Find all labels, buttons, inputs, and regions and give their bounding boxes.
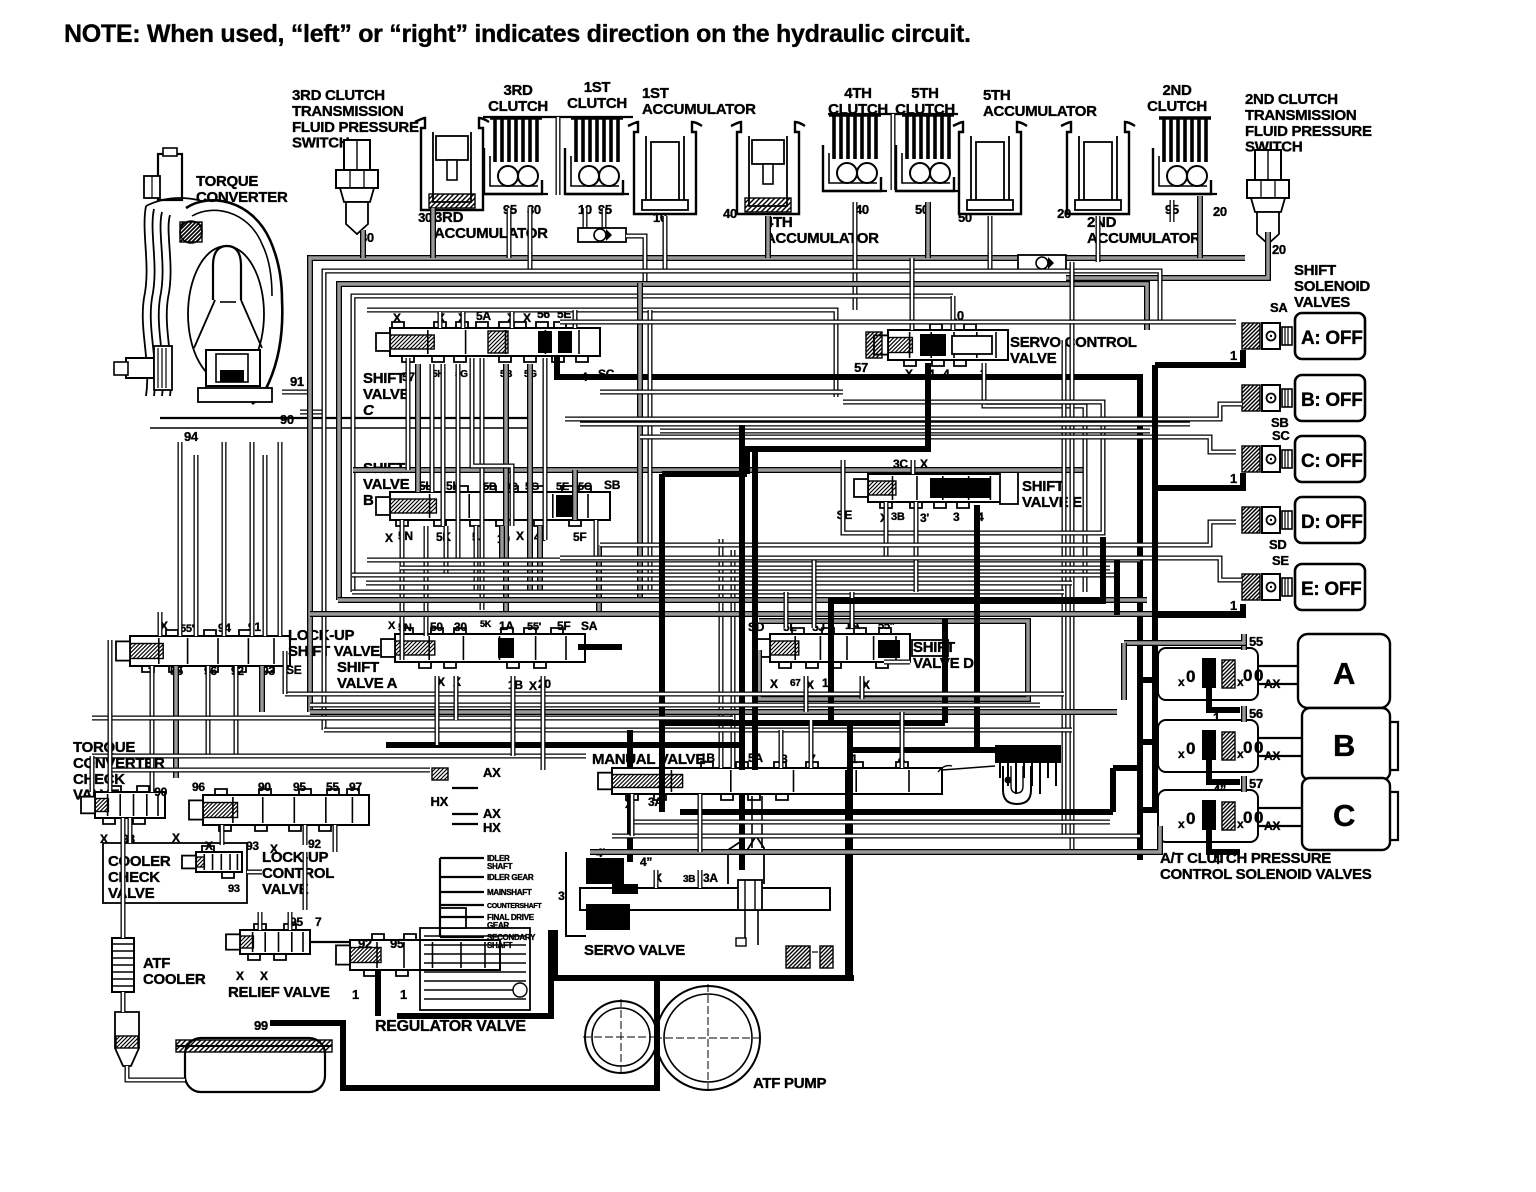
svg-text:55': 55': [527, 621, 542, 633]
manual valve bottom ports: [625, 795, 663, 811]
svg-text:90: 90: [280, 412, 294, 427]
svg-text:5E: 5E: [556, 481, 569, 493]
svg-text:A: A: [1333, 656, 1355, 691]
label 20 2nd acc: [1057, 206, 1071, 221]
label 1 solC: [1230, 471, 1237, 486]
label 99: [254, 1018, 268, 1033]
wire thick regulator: [397, 930, 551, 1016]
svg-text:SERVO VALVE: SERVO VALVE: [584, 942, 685, 959]
solenoid A off box: [1295, 313, 1365, 359]
label 2nd clutch: [1147, 82, 1207, 115]
label shift valve A: [337, 659, 398, 692]
svg-text:X: X: [385, 531, 393, 545]
wire valveB drops: [402, 470, 596, 660]
wire valveA bottom drops: [437, 676, 543, 770]
wire relief feeds: [260, 852, 350, 942]
svg-text:3A: 3A: [703, 871, 718, 885]
cooler check valve label: [108, 853, 171, 902]
wire mid h2b: [352, 583, 1072, 592]
wire valveC box: [353, 310, 1085, 470]
2nd accumulator: [1061, 122, 1135, 214]
svg-text:0: 0: [1186, 809, 1195, 828]
svg-text:SE: SE: [286, 663, 302, 677]
wire thick v 662: [662, 474, 747, 812]
valveD top ports: [748, 618, 895, 634]
svg-text:20: 20: [1213, 204, 1227, 219]
wire mid h4: [324, 728, 1072, 733]
svg-text:57: 57: [1249, 776, 1263, 791]
wire sol D line: [600, 522, 1236, 545]
svg-text:4”: 4”: [640, 855, 652, 869]
svg-text:93: 93: [228, 883, 240, 895]
svg-text:0: 0: [1254, 738, 1263, 757]
shift valve A body: [381, 628, 585, 668]
wire top gray bus: [310, 258, 1245, 712]
regulator valve: [336, 908, 530, 1010]
svg-text:91: 91: [290, 374, 304, 389]
lockup top ports: [160, 619, 261, 635]
svg-text:REGULATOR VALVE: REGULATOR VALVE: [375, 1018, 526, 1035]
svg-text:96: 96: [192, 780, 205, 794]
svg-text:C: C: [1333, 798, 1355, 833]
label lock-up control valve: [262, 849, 334, 898]
label 95 2nd clutch: [1165, 202, 1179, 217]
atf filter symbol: [115, 1012, 139, 1066]
wire servo ctl 10 drop: [912, 258, 953, 330]
svg-text:SC: SC: [1272, 428, 1290, 443]
check ball bypass 1: [578, 228, 626, 242]
tc check valve labels: [100, 832, 135, 846]
solenoid C off box: [1295, 436, 1365, 482]
svg-text:97: 97: [349, 780, 362, 794]
wire nest line 4: [367, 310, 836, 397]
svg-text:5B: 5B: [483, 481, 497, 493]
svg-text:3': 3': [558, 889, 567, 903]
solenoid A symbol: [1242, 323, 1292, 349]
svg-text:1A: 1A: [499, 619, 514, 633]
svg-text:ATF PUMP: ATF PUMP: [753, 1075, 826, 1092]
wire bypass1 drop: [626, 236, 645, 284]
svg-text:X: X: [205, 839, 213, 853]
valveB bottom ports: [385, 529, 586, 546]
relief valve labels: [236, 915, 322, 983]
label 3rd clutch pressure switch: [292, 87, 419, 152]
wire thick bottom h1: [386, 742, 742, 748]
lock-up control valve: [189, 789, 369, 831]
svg-text:A: OFF: A: OFF: [1301, 328, 1363, 349]
wire 4th acc drop: [765, 216, 771, 258]
svg-text:SE: SE: [1272, 553, 1289, 568]
label regulator valve: [375, 1018, 526, 1035]
valveC bottom ports: [402, 367, 615, 384]
svg-text:X: X: [529, 679, 537, 693]
svg-text:HX: HX: [483, 820, 501, 835]
svg-text:D: OFF: D: OFF: [1301, 512, 1363, 533]
svg-text:SA: SA: [1270, 300, 1288, 315]
svg-text:3: 3: [953, 510, 960, 524]
1st clutch: [565, 118, 629, 194]
svg-text:0: 0: [1243, 666, 1252, 685]
label 10 1st acc: [653, 210, 667, 225]
svg-text:X: X: [393, 311, 401, 325]
svg-text:0: 0: [1243, 738, 1252, 757]
wire mid h3: [310, 611, 1244, 617]
svg-text:92: 92: [308, 837, 321, 851]
svg-text:0: 0: [1186, 739, 1195, 758]
label 2nd clutch pressure switch: [1245, 91, 1372, 156]
svg-text:B: OFF: B: OFF: [1301, 390, 1363, 411]
wire sol A line: [560, 320, 1236, 325]
note text: [64, 20, 971, 48]
ax hx stubs: [432, 768, 478, 824]
label X above cooler check: [172, 831, 180, 845]
5th accumulator: [953, 122, 1027, 214]
wire lockup ctrl drops: [222, 825, 335, 852]
svg-text:92: 92: [358, 936, 372, 951]
svg-text:56: 56: [1249, 706, 1263, 721]
label 90 below tc: [280, 412, 324, 427]
valveB top ports: [419, 478, 621, 493]
wire lockup top feeds: [160, 442, 252, 636]
shift valve B body: [376, 486, 610, 526]
label manual valve: [592, 751, 705, 768]
svg-text:x: x: [1178, 817, 1185, 831]
wire thick sol feed v: [1152, 365, 1158, 812]
label 1st clutch: [567, 79, 627, 112]
wire thick valveE 4: [974, 505, 980, 748]
svg-text:IDLER GEAR: IDLER GEAR: [487, 873, 534, 882]
wire thick under manual: [680, 768, 1140, 812]
svg-text:1B: 1B: [508, 678, 523, 692]
svg-text:94: 94: [184, 429, 199, 444]
svg-text:5C: 5C: [578, 481, 592, 493]
wire nest line 3: [353, 296, 953, 592]
wire thick regulator feed: [375, 970, 381, 1016]
svg-text:1B: 1B: [700, 751, 715, 765]
svg-text:57: 57: [854, 360, 868, 375]
wire 3rd switch drop: [360, 230, 366, 258]
wire thick solA 1: [1155, 350, 1243, 365]
wire sol E pair: [560, 558, 1242, 580]
svg-text:40: 40: [723, 206, 737, 221]
label 94 below tc: [184, 429, 199, 444]
svg-text:C: OFF: C: OFF: [1301, 451, 1363, 472]
wire 3rd acc drop: [430, 208, 436, 258]
wire manual top drops: [781, 712, 902, 768]
svg-text:1: 1: [400, 987, 407, 1002]
svg-text:1: 1: [352, 987, 359, 1002]
3rd clutch: [484, 118, 548, 194]
svg-text:5F: 5F: [557, 619, 570, 633]
label SD: [1269, 537, 1286, 552]
2nd clutch: [1153, 118, 1217, 194]
label torque converter: [196, 173, 288, 206]
wire 5K thick stub: [578, 644, 622, 650]
wire thick solC 1: [1155, 473, 1243, 488]
svg-text:NOTE: When used, “left” or “ri: NOTE: When used, “left” or “right” indic…: [64, 20, 971, 48]
svg-text:20: 20: [1057, 206, 1071, 221]
shaft list lines: [440, 858, 484, 937]
label 30 switch: [360, 230, 374, 245]
wire thick servo frame: [555, 770, 854, 978]
valveA top ports: [388, 619, 598, 634]
label 1 solA: [1230, 348, 1237, 363]
svg-text:X: X: [270, 842, 278, 856]
svg-text:95: 95: [293, 780, 306, 794]
wire 2nd acc drop: [1096, 216, 1101, 262]
clutch bracket 4th-5th: [828, 114, 958, 190]
wire thick pcB feed: [1140, 739, 1158, 745]
label shift solenoid valves: [1294, 262, 1370, 311]
torque converter check valve label: [73, 739, 165, 804]
wire nest line 2: [339, 284, 1147, 600]
valveA bottom ports: [437, 675, 551, 693]
svg-text:COUNTERSHAFT: COUNTERSHAFT: [487, 903, 542, 910]
wire valveD box: [759, 621, 1028, 699]
svg-text:MANUAL VALVE: MANUAL VALVE: [592, 751, 705, 768]
label 4th accumulator: [765, 214, 879, 247]
wire thick v 755: [752, 449, 758, 770]
wire thick solE 1: [1155, 604, 1243, 615]
wire 2nd switch drop: [1066, 232, 1268, 278]
label shift valve D: [913, 639, 974, 672]
wire thick right v1: [1114, 560, 1120, 615]
label 40 4th acc: [723, 206, 737, 221]
4th accumulator: [731, 122, 805, 214]
label 2nd accumulator: [1087, 214, 1201, 247]
wire valveD bottom drops: [806, 676, 862, 712]
svg-text:90: 90: [154, 785, 167, 799]
1st accumulator: [628, 122, 702, 214]
label 95 30 3rd clutch: [503, 202, 541, 217]
label 40 4th clutch: [855, 202, 869, 217]
svg-text:X: X: [770, 677, 778, 691]
label 3rd clutch: [488, 82, 548, 115]
wire thick x630: [627, 730, 633, 862]
wire 3rd clutch drops: [509, 208, 530, 271]
cooler check valve box: [103, 843, 247, 903]
label 50 5th acc: [958, 210, 972, 225]
wire valveE box: [843, 402, 1103, 533]
wire mid h1: [367, 558, 1140, 563]
svg-text:0: 0: [1243, 808, 1252, 827]
svg-text:90: 90: [258, 780, 271, 794]
wire 5th acc drop: [988, 216, 993, 271]
svg-text:0: 0: [1186, 667, 1195, 686]
svg-text:93: 93: [246, 839, 259, 853]
label 20 2nd clutch: [1213, 204, 1227, 219]
svg-text:67: 67: [790, 678, 801, 689]
wire valveE feeds: [600, 392, 916, 592]
wire 4th clutch drop: [853, 202, 858, 310]
3rd accumulator: [415, 118, 489, 210]
wire thick E drain: [831, 537, 1103, 723]
svg-text:SD: SD: [1269, 537, 1286, 552]
3rd clutch transmission fluid pressure switch: [336, 140, 378, 234]
wire left column: [92, 640, 123, 938]
svg-text:x: x: [1178, 747, 1185, 761]
solenoid C symbol: [1242, 446, 1292, 472]
servo control valve body: [866, 324, 1008, 366]
wire manual drops: [632, 794, 700, 852]
wire thick manual 1: [662, 618, 995, 978]
svg-text:3B: 3B: [891, 511, 905, 523]
solenoid D symbol: [1242, 507, 1292, 533]
svg-text:3': 3': [920, 511, 929, 525]
wire pc connects: [1258, 666, 1302, 826]
label 5th clutch: [895, 85, 955, 118]
wire valveD feeds: [786, 560, 910, 662]
svg-text:7: 7: [315, 915, 322, 929]
label shift valve B: [363, 460, 410, 509]
wire lockup drops: [152, 666, 262, 792]
torque converter: [114, 148, 532, 428]
atf pump large gear: [654, 984, 762, 1092]
shift valve C body: [376, 322, 600, 362]
solenoid E symbol: [1242, 574, 1292, 600]
solenoid E off box: [1295, 564, 1365, 610]
svg-text:50: 50: [430, 620, 443, 634]
label A/T clutch pressure control: [1160, 850, 1372, 883]
valveC top ports: [393, 307, 571, 325]
svg-text:E: OFF: E: OFF: [1301, 579, 1361, 600]
5th clutch: [896, 115, 960, 191]
label 5th accumulator: [983, 87, 1097, 120]
svg-text:X: X: [260, 969, 268, 983]
svg-text:95: 95: [390, 936, 404, 951]
oil strainer: [176, 1038, 332, 1092]
regulator labels: [352, 936, 407, 1002]
wire thick pcC feed: [1140, 807, 1158, 813]
wire pcA gray loop: [1124, 634, 1244, 700]
svg-text:1: 1: [1230, 348, 1237, 363]
servo valve labels: [558, 846, 718, 903]
atf pump small gear: [583, 999, 659, 1075]
wire cooler to filter: [121, 992, 126, 1012]
solenoid B off box: [1295, 375, 1365, 421]
label 4th clutch: [828, 85, 888, 118]
lock-up shift valve body: [116, 630, 290, 672]
wire lockup loop: [180, 442, 280, 636]
valveE labels: [837, 457, 984, 525]
2nd clutch transmission fluid pressure switch: [1247, 150, 1289, 244]
4th clutch: [823, 115, 887, 191]
wire 5th clutch drop: [925, 202, 931, 258]
label SE: [1272, 553, 1289, 568]
atf cooler symbol: [112, 938, 134, 992]
wire servo drops: [656, 870, 700, 888]
svg-text:RELIEF VALVE: RELIEF VALVE: [228, 984, 330, 1001]
svg-text:x: x: [1178, 675, 1185, 689]
manual valve body: [598, 745, 1061, 804]
label SA: [1270, 300, 1288, 315]
label servo control valve: [1010, 334, 1137, 367]
solenoid B symbol: [1242, 385, 1292, 411]
wire sol B pair: [565, 404, 1242, 424]
wire filter to strainer: [127, 1066, 185, 1080]
label 30 3rd acc: [418, 210, 432, 225]
label servo valve: [584, 942, 685, 959]
svg-text:1: 1: [1230, 471, 1237, 486]
label SC: [1272, 428, 1290, 443]
svg-text:IDLERSHAFT: IDLERSHAFT: [487, 854, 513, 871]
svg-text:1: 1: [1230, 598, 1237, 613]
wire thick servo ctrl 4: [747, 363, 928, 474]
label 5K small: [480, 619, 492, 629]
wire 1st acc drop: [663, 216, 668, 271]
svg-text:HX: HX: [431, 794, 449, 809]
svg-text:55: 55: [1249, 634, 1263, 649]
svg-text:AX: AX: [483, 806, 501, 821]
servo ctrl labels: [854, 308, 987, 381]
svg-text:X: X: [172, 831, 180, 845]
wire valveC drops: [408, 358, 545, 614]
wire tc check to cooler check: [130, 651, 285, 872]
svg-text:20: 20: [1272, 242, 1286, 257]
wire 1st clutch drops: [585, 208, 604, 242]
svg-text:1: 1: [822, 676, 829, 690]
svg-text:B: B: [1333, 728, 1355, 763]
label 1 solE: [1230, 598, 1237, 613]
wire mid h2: [352, 568, 1120, 575]
label atf cooler: [143, 955, 206, 988]
svg-text:AX: AX: [483, 765, 501, 780]
wire sol C line: [640, 431, 1236, 452]
shift valve E body: [854, 468, 1018, 508]
wire mid verticals: [599, 262, 1072, 852]
pressure control solenoid A: [1158, 634, 1390, 725]
relief valve: [226, 924, 310, 960]
label 3rd accumulator: [434, 209, 548, 242]
svg-text:SB: SB: [604, 478, 621, 492]
svg-text:55: 55: [326, 780, 339, 794]
clutch bracket 3rd-1st: [483, 117, 633, 195]
svg-text:X: X: [388, 620, 396, 632]
solenoid D off box: [1295, 497, 1365, 543]
svg-text:30: 30: [418, 210, 432, 225]
svg-text:99: 99: [254, 1018, 268, 1033]
wire thick v 742: [739, 425, 745, 870]
label 91: [282, 374, 310, 392]
wire thick pump loop: [270, 978, 657, 1088]
label shift valve C: [363, 370, 410, 419]
pressure control solenoid B: [1158, 706, 1398, 797]
label lock-up shift valve: [288, 627, 380, 660]
wire thick pcA feed: [1140, 677, 1158, 683]
svg-text:MAINSHAFT: MAINSHAFT: [487, 888, 532, 897]
lockup ctrl bottom ports: [205, 837, 321, 856]
shaft list: [487, 854, 542, 950]
wire left h band: [92, 694, 1064, 770]
check ball bypass 2: [1018, 255, 1066, 271]
label AX HX: [431, 765, 502, 835]
label 20 2nd switch: [1272, 242, 1286, 257]
label 1st accumulator: [642, 85, 756, 118]
svg-text:3B: 3B: [683, 874, 695, 885]
shift valve D body: [756, 628, 948, 668]
lockup ctrl top ports: [154, 780, 362, 799]
wire 2nd clutch drop 20: [1197, 196, 1203, 258]
lockup bottom ports: [148, 663, 302, 679]
label 50 5th clutch: [915, 202, 929, 217]
label shift valve E: [1022, 478, 1082, 511]
wire valveB box bottom: [338, 597, 1147, 603]
wire below manual thin: [612, 822, 1140, 836]
wire below manual gray: [590, 826, 1160, 852]
svg-text:0: 0: [1254, 666, 1263, 685]
svg-text:30: 30: [454, 620, 467, 634]
wire mid gray band: [310, 709, 1117, 715]
